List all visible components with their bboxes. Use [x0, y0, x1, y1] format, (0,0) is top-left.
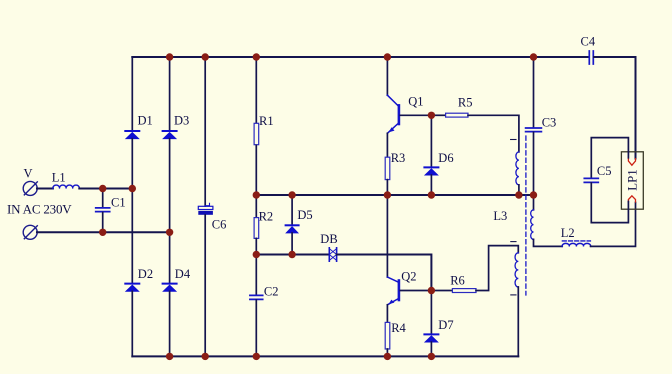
svg-text:Q1: Q1 [408, 95, 423, 109]
wire D5 bottom [291, 233, 293, 255]
capacitor C1 [96, 195, 126, 211]
svg-text:IN AC 230V: IN AC 230V [7, 202, 72, 217]
svg-text:L2: L2 [561, 226, 575, 240]
svg-text:C1: C1 [111, 195, 126, 209]
polarity tick L3 winding 1 [511, 139, 516, 141]
resistor R6 [450, 274, 476, 293]
transformer L3 winding 1 [493, 152, 519, 223]
svg-text:R1: R1 [259, 114, 274, 128]
wire Q2 emitter to R4 [386, 305, 388, 323]
transformer L3 core [525, 136, 527, 295]
terminal V (AC input top) [23, 167, 37, 196]
wire mid node to winding 2 [533, 195, 535, 210]
svg-text:C5: C5 [597, 164, 612, 178]
svg-text:C3: C3 [542, 115, 557, 129]
svg-text:R2: R2 [259, 210, 274, 224]
node top rail / C6 [202, 53, 209, 60]
wire winding 3 to bottom rail [517, 287, 519, 356]
diac DB [320, 232, 337, 261]
node mid rail / R1 R2 [253, 191, 260, 198]
wire C6 column top [204, 57, 206, 206]
wire top rail [132, 56, 588, 58]
wire D7 to bottom rail [430, 342, 432, 356]
node mid rail / D6 [428, 191, 435, 198]
diode D1 [125, 114, 152, 139]
wire R2 to C2 [255, 238, 257, 294]
node top rail / D3 [166, 53, 173, 60]
diode D4 [163, 267, 191, 292]
svg-text:C4: C4 [581, 35, 596, 49]
wire D4 to bottom rail [169, 291, 171, 356]
resistor R5 [446, 95, 473, 117]
node mid rail / winding 1 [515, 191, 522, 198]
diode D6 [424, 151, 453, 175]
wire C4 to lamp top-right pin [594, 57, 636, 159]
lamp top filament [628, 159, 635, 166]
resistor R1 [254, 114, 273, 145]
node lower rail / R2 C2 [253, 251, 260, 258]
wire winding 1 to mid node [518, 185, 520, 195]
wire C3 to mid node [533, 132, 535, 195]
svg-text:D2: D2 [138, 267, 153, 281]
node Q1 base [428, 112, 435, 119]
wire winding 2 to L2 [534, 239, 563, 246]
node top rail / Q1 collector [384, 53, 391, 60]
svg-text:LP1: LP1 [625, 169, 640, 191]
svg-text:R3: R3 [391, 151, 406, 165]
svg-text:Q2: Q2 [401, 269, 416, 283]
polarity tick L3 winding 3 bottom [511, 294, 516, 296]
node AC line 1 / C1 [99, 185, 106, 192]
resistor R4 [385, 321, 406, 349]
svg-text:D7: D7 [438, 318, 453, 332]
resistor R2 [254, 210, 273, 239]
node mid rail / C3 winding 2 [530, 191, 537, 198]
wire D3 column top [169, 57, 171, 130]
wire R1 top [255, 57, 257, 122]
svg-text:C6: C6 [212, 218, 227, 232]
transistor Q1 [387, 95, 423, 134]
wire Q1 collector [386, 57, 388, 95]
node AC line 2 / bridge [166, 229, 173, 236]
svg-text:D6: D6 [438, 151, 453, 165]
svg-text:D1: D1 [138, 114, 153, 128]
capacitor C5 [584, 164, 611, 182]
polarity tick L3 winding 3 top [511, 241, 516, 243]
wire R6 to L3 winding 3 [476, 246, 518, 291]
wire AC node to D2 [131, 189, 133, 284]
svg-text:D5: D5 [297, 208, 312, 222]
wire terminal to L1 [37, 188, 53, 190]
diode D5 [286, 208, 313, 233]
wire Q2 base [400, 290, 431, 292]
wire mid rail [256, 194, 533, 196]
wire D2 to bottom rail [131, 291, 133, 356]
node mid rail / R3 Q2 [384, 191, 391, 198]
node Q2 base [428, 287, 435, 294]
wire AC node 2 to D4 [169, 232, 171, 283]
wire D1 column top [131, 57, 133, 130]
wire base node to D6 [430, 115, 432, 167]
wire AC line 1 [79, 188, 132, 190]
wire lamp top-left pin to C5 [591, 138, 628, 178]
node top rail / C3 [530, 53, 537, 60]
wire C5 to lamp bottom-left pin [591, 183, 628, 223]
diode D3 [163, 114, 190, 139]
capacitor C2 [250, 284, 279, 299]
svg-text:D3: D3 [174, 114, 189, 128]
node bottom rail / D7 [428, 353, 435, 360]
wire Q1 base [400, 114, 431, 116]
wire bottom rail [132, 355, 518, 357]
lamp bottom filament [628, 196, 635, 202]
wire R4 to bottom rail [386, 349, 388, 356]
wire C1 top [102, 189, 104, 208]
svg-text:V: V [24, 167, 33, 181]
node top rail / R1 [253, 53, 260, 60]
diode D7 [424, 318, 453, 342]
wire R3 to mid node [386, 180, 388, 195]
svg-text:R4: R4 [391, 321, 406, 335]
capacitor C3 [526, 115, 557, 131]
svg-text:C2: C2 [264, 284, 279, 298]
node bottom rail / C6 [202, 353, 209, 360]
transformer L3 winding 3 [515, 253, 518, 287]
node bottom rail / C2 [253, 353, 260, 360]
wire DB to Q2 base node [337, 255, 432, 290]
wire AC line 2 [37, 231, 170, 233]
node AC line 2 / C1 [99, 229, 106, 236]
wire D5 top [291, 195, 293, 225]
wire C1 bottom [102, 213, 104, 233]
svg-text:L1: L1 [52, 170, 66, 184]
terminal AC input bottom [23, 225, 37, 239]
transformer L3 winding 2 [531, 210, 534, 240]
node AC line 1 / bridge [129, 185, 136, 192]
node bottom rail / D4 [166, 353, 173, 360]
wire R5 to L3 winding 1 [468, 115, 519, 152]
wire L2 to lamp bottom-right pin [591, 203, 636, 247]
node lower rail / D5 [288, 251, 295, 258]
wire Q1 emitter to R3 [386, 133, 388, 157]
resistor R3 [385, 151, 405, 180]
wire Q2 base node to D7 [430, 291, 432, 335]
wire C2 bottom [255, 300, 257, 356]
capacitor C6 (polarized) [198, 203, 226, 231]
lamp LP1 body [621, 152, 643, 209]
node mid rail / D5 [288, 191, 295, 198]
wire C6 column bottom [204, 215, 206, 357]
svg-text:R6: R6 [450, 274, 465, 288]
capacitor C4 [581, 35, 596, 65]
wire D1 to AC node [131, 139, 133, 189]
diode D2 [125, 267, 153, 292]
wire D3 to AC node 2 [169, 139, 171, 233]
wire D6 to mid node [430, 175, 432, 195]
wire R1 to mid node [255, 146, 257, 218]
inductor L2 [561, 226, 591, 246]
wire base node to R5 [431, 114, 445, 116]
wire lower rail left [256, 254, 329, 256]
svg-text:D4: D4 [175, 267, 191, 281]
wire C3 top [533, 57, 535, 127]
wire Q2 base node to R6 [431, 290, 452, 292]
svg-text:DB: DB [320, 232, 337, 246]
inductor L1 [52, 170, 80, 188]
node bottom rail / R4 [384, 353, 391, 360]
wire Q2 collector [386, 195, 388, 277]
svg-text:R5: R5 [458, 95, 473, 109]
svg-text:L3: L3 [493, 209, 507, 223]
transistor Q2 [387, 269, 416, 304]
